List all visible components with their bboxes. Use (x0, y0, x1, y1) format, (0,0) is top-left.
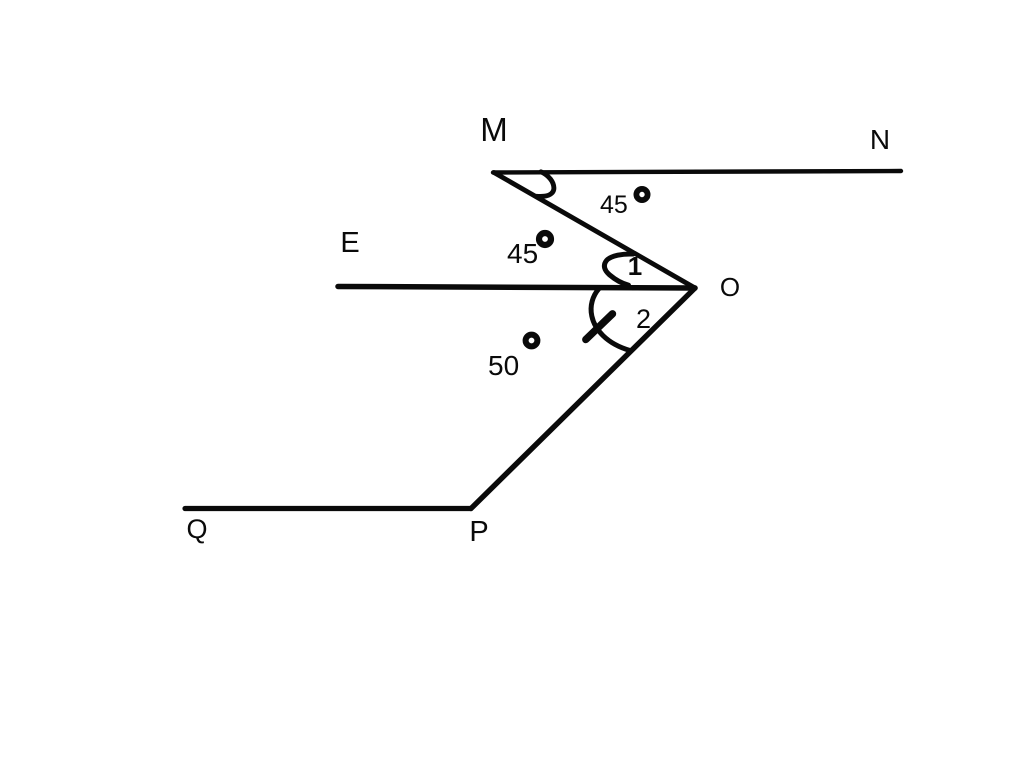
svg-text:N: N (870, 124, 890, 155)
svg-text:50: 50 (488, 350, 519, 381)
line PQ (185, 506, 471, 511)
angle arc at M (536, 172, 554, 197)
svg-text:P: P (469, 516, 488, 548)
degree circle for upper 45 (636, 189, 647, 200)
svg-text:45: 45 (507, 238, 538, 269)
svg-text:2: 2 (636, 304, 651, 334)
svg-text:45: 45 (600, 191, 628, 219)
angle arc 1 at O (604, 254, 633, 285)
degree circle for 50 (526, 335, 538, 347)
svg-text:M: M (480, 111, 508, 148)
svg-text:O: O (720, 272, 740, 302)
svg-text:E: E (340, 227, 359, 259)
degree circle for middle 45 (539, 233, 551, 245)
line MO (transversal segment M to O) (494, 173, 695, 289)
tick mark on arc 2 (586, 314, 613, 340)
line MN (493, 171, 901, 173)
svg-text:1: 1 (628, 251, 642, 281)
svg-text:Q: Q (186, 514, 207, 544)
angle arc 2 at O (591, 289, 630, 351)
line OP (transversal segment O to P) (471, 288, 695, 509)
line EO (338, 287, 695, 289)
